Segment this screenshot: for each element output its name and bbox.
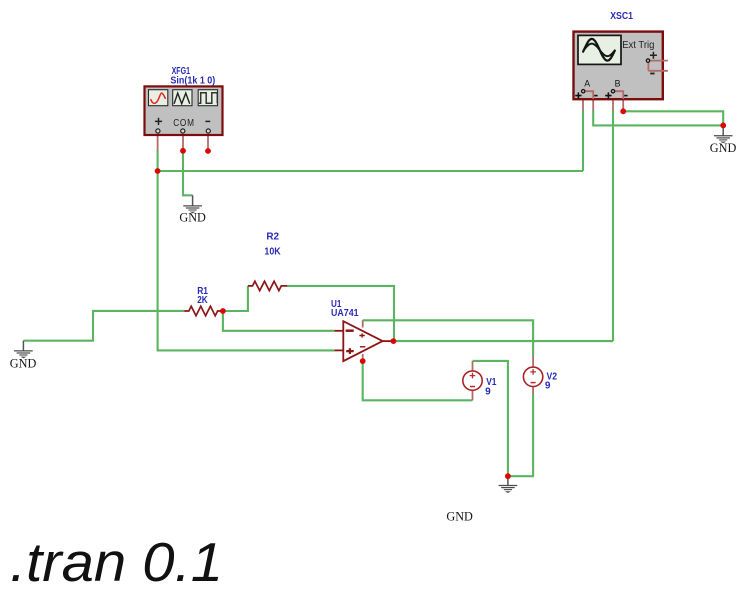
oscilloscope XSC1 xyxy=(574,32,668,100)
pin stub: V1 top xyxy=(472,361,474,371)
op-amp U1 xyxy=(335,320,394,361)
wire: R2 right lead to feedback vertical down to output junction xyxy=(287,286,394,341)
junction node: opamp output xyxy=(391,338,397,344)
wire: vertical from junction down to opamp noninverting row xyxy=(158,171,335,350)
wire: XFG COM down then to ground xyxy=(183,151,193,196)
pin stub: XFG COM xyxy=(182,135,184,151)
wire: scope B+ vertical down to output row xyxy=(612,110,614,341)
wire: opamp output junction right to B+ vertical xyxy=(393,340,613,342)
label GND top right xyxy=(710,140,737,155)
junction node: top right ground xyxy=(720,123,726,129)
pin stub: XFG minus xyxy=(207,135,209,151)
label U1 UA741 xyxy=(331,299,359,319)
svg-text:GND: GND xyxy=(710,140,737,155)
wire: R1 junction up to R2 left lead xyxy=(223,286,248,311)
svg-text:Ext Trig: Ext Trig xyxy=(622,40,654,51)
source V1 xyxy=(463,371,482,390)
svg-text:Sin(1k 1 0): Sin(1k 1 0) xyxy=(170,75,215,86)
svg-text:10K: 10K xyxy=(264,246,281,257)
label V2 9 xyxy=(545,372,558,392)
ground: XFG COM GND symbol xyxy=(183,195,202,213)
junction node: bottom ground xyxy=(505,473,511,479)
ground: bottom GND symbol xyxy=(499,476,518,493)
label XFG1 xyxy=(172,66,191,77)
svg-text:GND: GND xyxy=(179,210,206,225)
wire: scope A+ vertical down to y=171 xyxy=(582,110,584,171)
pin stub: scope A- xyxy=(592,99,594,111)
svg-text:GND: GND xyxy=(446,509,473,524)
resistor R1 xyxy=(184,306,221,315)
wire: opamp V- supply down and right to V1 minus xyxy=(363,361,473,400)
wire: V2 minus down and left to ground junction xyxy=(508,394,533,477)
junction node: XFG plus junction xyxy=(155,168,161,174)
svg-text:9: 9 xyxy=(545,381,551,392)
wire: horizontal XFG+ junction to scope A+ at y=171 xyxy=(158,170,583,172)
svg-text:.tran 0.1: .tran 0.1 xyxy=(10,531,223,593)
wire: opamp V+ supply right and down to V2 plus xyxy=(363,320,533,356)
pin stub: XFG plus xyxy=(157,135,159,151)
svg-text:R2: R2 xyxy=(266,232,279,243)
svg-text:XSC1: XSC1 xyxy=(610,11,633,22)
label GND com xyxy=(179,210,206,225)
wire: XFG plus pin down to junction xyxy=(157,150,159,171)
wire: left GND up to R1 left lead xyxy=(23,311,184,341)
ground: top right GND symbol xyxy=(714,125,733,143)
label GND left xyxy=(10,356,37,371)
svg-text:UA741: UA741 xyxy=(331,308,359,319)
ground: left GND symbol xyxy=(14,341,33,359)
svg-text:2K: 2K xyxy=(197,295,208,306)
svg-text:9: 9 xyxy=(485,386,491,397)
label V1 9 xyxy=(485,377,497,397)
source V2 xyxy=(523,367,542,386)
label Sin(1k 1 0) xyxy=(170,75,215,86)
junction node: XFG minus pin end xyxy=(205,148,211,154)
label R1 2K xyxy=(197,286,208,306)
pin stub: scope B- xyxy=(622,99,624,111)
resistor R2 xyxy=(248,281,287,290)
label GND bottom xyxy=(446,509,473,524)
label R2 10K xyxy=(264,232,281,258)
svg-text:B: B xyxy=(615,78,621,88)
junction node: R1 output xyxy=(220,308,226,314)
wire: scope B- junction right and down to ground junction xyxy=(623,111,723,125)
pin stub: scope A+ xyxy=(582,99,584,111)
svg-text:COM: COM xyxy=(173,118,195,129)
wire: scope A- down and right to ground junction xyxy=(593,110,723,125)
function generator XFG1 xyxy=(145,86,223,135)
pin stub: V1 bottom xyxy=(472,391,474,401)
pin stub: V2 top xyxy=(532,356,534,368)
wire: R1 junction down to inverting input xyxy=(223,311,335,331)
pin stub: scope B+ xyxy=(612,99,614,111)
svg-text:GND: GND xyxy=(10,356,37,371)
pin stub: V2 bottom xyxy=(532,386,534,394)
directive .tran 0.1 xyxy=(10,531,223,593)
label XSC1 xyxy=(610,11,633,22)
junction node: opamp V- pin xyxy=(360,358,366,364)
junction node: XFG COM pin end xyxy=(180,148,186,154)
svg-text:A: A xyxy=(584,78,590,88)
junction node: scope B- xyxy=(620,108,626,114)
wire: V1 plus up right and down to ground junction xyxy=(473,361,508,476)
